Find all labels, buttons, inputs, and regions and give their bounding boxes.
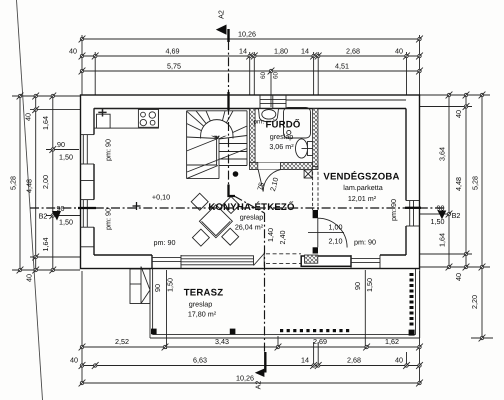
svg-text:pm: 90: pm: 90 [389, 199, 398, 221]
dim line 3,64/1,64 [448, 95, 450, 267]
going line diagonals [187, 149, 247, 173]
svg-text:pm:: pm: [254, 118, 265, 125]
svg-text:pm: 90: pm: 90 [104, 208, 113, 230]
extension lines [82, 271, 420, 385]
kitchen fixtures [94, 109, 158, 211]
dim row 2,52/3,43/2,69/1,62 [82, 346, 420, 348]
svg-text:A2: A2 [217, 10, 226, 19]
exterior steps [130, 267, 150, 304]
svg-text:1,50: 1,50 [59, 153, 73, 162]
svg-text:10,26: 10,26 [236, 374, 254, 383]
flue box [304, 170, 312, 178]
svg-text:2,68: 2,68 [346, 47, 360, 56]
terrace sliding door band [181, 256, 254, 265]
table [199, 205, 232, 238]
interior wall: bathroom bottom (hatched) with door gap [250, 162, 318, 169]
straight treads right [219, 143, 247, 145]
bottom dimension chain [70, 271, 423, 386]
section line A2 lower [264, 213, 266, 354]
chair NW [191, 193, 208, 210]
dotted pergola column [410, 273, 414, 326]
svg-text:2,20: 2,20 [470, 295, 479, 309]
svg-text:1,64: 1,64 [41, 238, 50, 252]
dining furniture [191, 193, 239, 246]
top wall inner edge [94, 108, 406, 110]
svg-text:60: 60 [273, 72, 280, 80]
dim row 10,26 [82, 382, 420, 384]
svg-text:+0,10: +0,10 [152, 193, 170, 202]
terrace door width dim line left [166, 270, 168, 294]
left wall upper window 90 [81, 135, 95, 164]
exterior wall outer edge [81, 95, 420, 269]
toilet [296, 139, 308, 158]
chair SE [222, 228, 239, 245]
svg-text:90: 90 [153, 284, 162, 292]
doors [258, 163, 347, 248]
svg-text:1,80: 1,80 [274, 47, 288, 56]
svg-text:greslap: greslap [240, 213, 264, 222]
sink [97, 109, 111, 128]
extension lines to building [82, 35, 420, 95]
dim line 5,28/2,20 [481, 95, 483, 338]
guest room door size line [308, 232, 344, 234]
svg-text:4,51: 4,51 [335, 62, 349, 71]
svg-text:60: 60 [260, 72, 267, 80]
svg-text:2,68: 2,68 [347, 356, 361, 365]
dim row 40/6,63/14/2,68/40 [82, 365, 420, 367]
chair NE [223, 197, 240, 214]
sliding panel heavy rect [301, 256, 351, 266]
svg-text:4,48: 4,48 [454, 177, 463, 191]
bottom wall solid left part [94, 255, 152, 269]
svg-text:3,06 m²: 3,06 m² [269, 142, 294, 151]
washbasin [259, 109, 279, 122]
svg-text:VENDÉGSZOBA: VENDÉGSZOBA [323, 171, 399, 183]
section line bold dashes at walls [78, 207, 96, 209]
svg-text:1,50: 1,50 [166, 278, 175, 292]
room texts [104, 118, 400, 318]
bottom wall window pm90 left [152, 255, 181, 269]
hatched block at wall base [305, 255, 318, 263]
top dimension chain [69, 30, 423, 108]
bottom wall solid right part [380, 254, 406, 256]
straight treads left [187, 164, 217, 166]
chair SW [192, 229, 209, 246]
bathroom door leaf and swing [258, 170, 263, 192]
dim line 40/4,48/40 [465, 95, 467, 267]
svg-text:14: 14 [239, 47, 247, 56]
svg-text:TERASZ: TERASZ [184, 288, 224, 299]
stove [138, 110, 158, 128]
guest room door leaf and swing [317, 218, 319, 247]
guest room door jambs [313, 210, 318, 218]
dim row 40/4,69/14/1,80/14/2,68/40 [82, 55, 420, 57]
svg-text:5,28: 5,28 [471, 176, 480, 190]
svg-text:14: 14 [301, 47, 309, 56]
svg-text:12,01 m²: 12,01 m² [348, 194, 377, 203]
left dimension chain [9, 93, 81, 282]
section lines [30, 10, 446, 389]
svg-text:5,28: 5,28 [9, 176, 18, 190]
winder treads fan left [187, 111, 218, 138]
terrace door dashed opening [266, 254, 301, 264]
svg-text:pm: 90: pm: 90 [154, 238, 176, 247]
svg-text:FÜRDŐ: FÜRDŐ [265, 119, 300, 131]
svg-text:26,04 m²: 26,04 m² [235, 223, 264, 232]
60/60 small dims [270, 71, 272, 107]
dotted pergola row [280, 329, 349, 332]
svg-text:KONYHA-ÉTKEZŐ: KONYHA-ÉTKEZŐ [208, 201, 295, 213]
connector lines [420, 95, 493, 338]
guest room wall thin part [313, 167, 318, 211]
terrace window width dim line right [364, 270, 366, 294]
svg-text:4,48: 4,48 [25, 179, 34, 193]
svg-text:2,00: 2,00 [41, 175, 50, 189]
svg-text:greslap: greslap [270, 132, 294, 141]
svg-text:1,50: 1,50 [365, 278, 374, 292]
winder treads fan right [218, 111, 225, 139]
section line A2 jog diagonal [235, 197, 265, 214]
level mark +0,10 [133, 202, 141, 210]
svg-text:1,40: 1,40 [266, 228, 275, 242]
svg-text:2,10: 2,10 [329, 237, 343, 246]
svg-text:greslap: greslap [189, 300, 213, 309]
svg-text:40: 40 [69, 47, 77, 56]
connector lines [12, 96, 80, 270]
winder eye white mask [201, 120, 233, 136]
svg-text:A2: A2 [254, 381, 263, 390]
worktop [94, 109, 158, 129]
stair outline [186, 111, 188, 179]
dim line 5,28 [19, 96, 21, 270]
terrace door leaf [254, 253, 265, 267]
svg-text:1,50: 1,50 [59, 218, 73, 227]
dim line 40/4,48/40 [35, 96, 37, 270]
right wall inner edge [405, 109, 407, 256]
section line A2 elbow [229, 185, 236, 197]
site boundary line [17, 0, 43, 400]
column dot [233, 171, 239, 177]
svg-text:14: 14 [301, 356, 309, 365]
svg-text:40: 40 [395, 47, 403, 56]
terrace slab edge double lines [150, 269, 420, 339]
svg-text:40: 40 [25, 274, 34, 282]
svg-text:1,64: 1,64 [41, 116, 50, 130]
svg-text:3,64: 3,64 [438, 147, 447, 161]
svg-text:lam.parketta: lam.parketta [343, 183, 383, 192]
svg-text:1,00: 1,00 [329, 223, 343, 232]
svg-text:40: 40 [24, 113, 33, 121]
stairs [187, 111, 247, 179]
left wall lower window 1,50 [81, 181, 95, 247]
svg-text:40: 40 [454, 273, 463, 281]
svg-text:90: 90 [353, 282, 362, 290]
top wall window (above bathroom) [260, 95, 286, 109]
svg-text:40: 40 [454, 110, 463, 118]
right wall window 1,50 [406, 201, 420, 227]
dim line 1,64/2,00/1,64 [52, 96, 54, 270]
bottom wall window pm90 right [351, 255, 380, 269]
shower tray [284, 108, 311, 139]
svg-text:pm: 90: pm: 90 [354, 238, 376, 247]
curved inner rail [201, 120, 233, 139]
bathroom door threshold [258, 162, 281, 164]
svg-text:2,52: 2,52 [115, 337, 129, 346]
svg-text:pm: 90: pm: 90 [104, 139, 113, 161]
svg-text:4,69: 4,69 [166, 47, 180, 56]
right dimension chain [420, 92, 493, 342]
svg-text:17,80 m²: 17,80 m² [188, 310, 217, 319]
svg-text:90: 90 [57, 140, 65, 149]
interior wall: bathroom left (hatched) [250, 109, 256, 166]
svg-text:B2: B2 [452, 211, 461, 220]
A2 top marker [227, 29, 229, 42]
svg-text:2,40: 2,40 [278, 231, 287, 245]
dim row 5,75/4,51 [82, 70, 420, 72]
section line A2 upper [228, 41, 230, 186]
svg-text:B2: B2 [39, 212, 48, 221]
svg-text:10,26: 10,26 [238, 30, 256, 39]
svg-text:5,75: 5,75 [167, 62, 181, 71]
A2 bottom marker [264, 352, 266, 373]
terrace [130, 267, 420, 339]
interior wall: guest room left (hatched top) [313, 109, 318, 167]
bathroom fixtures [259, 108, 313, 159]
left wall inner edge [93, 109, 95, 256]
dim row 10,26 [82, 38, 420, 40]
terrace posts [151, 329, 157, 335]
svg-text:40: 40 [70, 356, 78, 365]
building walls [81, 95, 420, 269]
svg-text:40: 40 [395, 356, 403, 365]
section line B2 horizontal [30, 207, 446, 209]
central newel wall [216, 139, 218, 166]
svg-text:1,64: 1,64 [438, 233, 447, 247]
svg-text:6,63: 6,63 [193, 356, 207, 365]
